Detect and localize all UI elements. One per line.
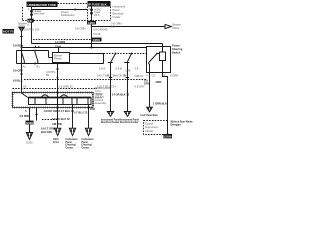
svg-text:B1: B1 — [37, 64, 41, 68]
fuse F8 name blob — [28, 19, 34, 23]
power steering switch box — [147, 47, 171, 73]
svg-text:14 OR BLK 72: 14 OR BLK 72 — [112, 93, 130, 97]
svg-text:F8: F8 — [28, 19, 32, 23]
svg-text:A1: A1 — [23, 64, 27, 68]
HVAC fuse text — [94, 8, 101, 17]
svg-text:Instrument Panel: Instrument Panel — [101, 118, 120, 121]
svg-text:4.7 BLU 72: 4.7 BLU 72 — [74, 110, 88, 114]
dashed connector line C2 — [13, 88, 98, 90]
left bold label 2 lines — [41, 126, 55, 134]
connector blob C2 — [92, 38, 102, 42]
junction dot bus3 a — [21, 63, 23, 65]
svg-text:GRY: GRY — [144, 82, 150, 86]
blower motor text — [173, 23, 181, 30]
svg-text:G301: G301 — [53, 139, 59, 141]
svg-text:0.8: 0.8 — [135, 66, 139, 70]
svg-text:Without Rear Wndw: Without Rear Wndw — [171, 121, 193, 124]
svg-text:IP FUSE BLK: IP FUSE BLK — [88, 2, 107, 6]
svg-text:0.8 GRY: 0.8 GRY — [13, 69, 23, 73]
svg-text:S339: S339 — [26, 121, 33, 125]
svg-text:C48: C48 — [90, 107, 95, 111]
svg-text:AM PNK: AM PNK — [52, 122, 62, 126]
bus wire lower (DK GRN) — [22, 47, 147, 49]
svg-text:Electrical: Electrical — [113, 12, 124, 16]
coil component — [160, 52, 166, 61]
svg-text:B: B — [164, 73, 166, 77]
mid arrow 2 label — [120, 118, 139, 124]
svg-text:Steering: Steering — [172, 47, 183, 51]
svg-text:C200: C200 — [88, 21, 96, 25]
dashed note box bottom right — [144, 121, 168, 135]
left connector triangle from fuse — [19, 22, 27, 32]
wires below control box — [29, 108, 31, 121]
svg-text:Except: Except — [145, 122, 153, 126]
branch wire label — [61, 10, 75, 17]
svg-text:HOT FUSE: HOT FUSE — [3, 30, 18, 34]
fuse block A dashed border — [22, 7, 24, 21]
svg-text:UNDERHOOD FUSE: UNDERHOOD FUSE — [28, 3, 57, 7]
svg-text:Panel: Panel — [113, 8, 120, 12]
arrow to blower motor — [165, 24, 171, 28]
ground triangle mid 2 — [66, 128, 78, 149]
HVAC control assembly box (ticked border) — [12, 92, 95, 109]
wire from resistor box right — [70, 53, 104, 55]
svg-text:Switch: Switch — [172, 50, 181, 54]
splice blob S339 — [26, 121, 34, 125]
junction dot orange wire — [91, 47, 93, 49]
switch in right box — [149, 54, 160, 63]
fuse block A header (UNDERHOOD FUSE BLOCK) — [27, 2, 58, 8]
bottom bus wire — [17, 63, 104, 65]
dashed switch line — [104, 53, 147, 55]
pin tick on resistor wire — [56, 68, 58, 70]
svg-text:Vent fuse: Vent fuse — [34, 12, 46, 16]
fuse block B dashed border left — [87, 7, 89, 21]
dashed tie line between fuse blocks — [58, 3, 88, 5]
relay contact node 1 — [21, 50, 23, 52]
tick on pink wire — [20, 36, 22, 38]
svg-text:C48: C48 — [126, 69, 131, 73]
resistor box stub down — [57, 63, 59, 129]
svg-text:G200: G200 — [26, 141, 33, 145]
switch arc 1 — [41, 95, 49, 98]
svg-text:0.8 PNK: 0.8 PNK — [20, 114, 30, 118]
control assembly label — [95, 92, 107, 106]
junction dot bus2 left — [21, 47, 23, 49]
wire label 0.8 GRY — [144, 79, 150, 86]
svg-text:ORN: ORN — [156, 80, 162, 84]
svg-text:Power: Power — [172, 44, 180, 48]
svg-text:Center: Center — [82, 146, 89, 149]
svg-text:Instrument: Instrument — [66, 138, 78, 141]
svg-text:B: B — [25, 109, 27, 113]
dashed connector line mid — [33, 39, 92, 41]
switch M2 — [131, 53, 133, 55]
right box label — [172, 44, 183, 55]
bus2 pin ticks — [36, 46, 39, 48]
coil stub to bus1 — [162, 44, 164, 53]
svg-text:LG ORN: LG ORN — [55, 40, 65, 44]
hot at all times label blob — [3, 29, 19, 34]
svg-text:Electrical Center: Electrical Center — [120, 121, 138, 124]
mid arrow 1 label — [101, 118, 120, 124]
svg-text:Distribution: Distribution — [61, 13, 75, 17]
step wire — [103, 54, 105, 64]
blower resistors box — [53, 53, 70, 63]
blower switch wiper — [22, 93, 28, 98]
svg-text:0.8 DK GRN: 0.8 DK GRN — [44, 109, 59, 113]
relay box outline left — [17, 51, 53, 64]
wire from fuse block A down — [31, 7, 33, 44]
svg-text:0.8 DK BLU 52: 0.8 DK BLU 52 — [52, 117, 70, 121]
fuse block B dashed border right — [110, 7, 112, 21]
short dashed line — [42, 119, 59, 121]
wire label PPL — [46, 70, 56, 77]
branch wire to IP fuse block — [32, 9, 88, 11]
wire down from resistor — [72, 105, 74, 129]
svg-text:Resist: Resist — [54, 57, 62, 61]
mid connector arrow 2 — [124, 112, 130, 117]
svg-text:A: A — [146, 73, 148, 77]
svg-text:0.8 LT GRN: 0.8 LT GRN — [41, 126, 55, 130]
svg-text:Panel: Panel — [82, 142, 89, 144]
splice node on branch — [74, 9, 76, 11]
svg-text:0.6 GRN 52: 0.6 GRN 52 — [59, 84, 74, 88]
svg-text:0.8 DK BLU: 0.8 DK BLU — [114, 74, 128, 78]
svg-text:A GRD: A GRD — [170, 73, 178, 77]
svg-text:0.8 A: 0.8 A — [99, 66, 105, 70]
switch contact 2 — [35, 51, 38, 64]
svg-text:Electrical Center: Electrical Center — [101, 121, 119, 124]
mid connector arrow 1 — [107, 112, 113, 117]
svg-text:A3: A3 — [23, 84, 27, 88]
wire right to blower motor — [92, 26, 166, 28]
resistor box stub to bus2 — [58, 48, 60, 53]
fuse block B header (IP FUSE BLOCK) — [88, 1, 111, 7]
heater fuse text — [34, 9, 46, 16]
svg-text:0.8 GRY: 0.8 GRY — [135, 85, 145, 89]
svg-text:Electrical: Electrical — [82, 144, 93, 147]
svg-text:Assembly: Assembly — [95, 101, 107, 105]
wire below splice — [29, 124, 31, 132]
svg-text:Motor: Motor — [173, 26, 180, 30]
svg-text:0.8 PNK 139: 0.8 PNK 139 — [24, 28, 40, 32]
svg-text:Instrument Panel: Instrument Panel — [120, 118, 139, 121]
dashed separator line mid page — [24, 79, 147, 81]
splice dot on PPL wire — [57, 77, 59, 79]
switch contact 1 — [22, 51, 25, 64]
svg-text:1 ORN BLK: 1 ORN BLK — [153, 102, 167, 106]
svg-text:Cluster: Cluster — [145, 129, 154, 133]
note box side label — [171, 121, 193, 127]
svg-text:Instr Panel Elec: Instr Panel Elec — [141, 114, 159, 117]
pink wire down — [21, 32, 23, 94]
svg-text:C6: C6 — [152, 73, 156, 77]
switch stub down — [148, 63, 151, 108]
wire pin ticks mid — [109, 77, 129, 79]
svg-text:BLK DRL: BLK DRL — [41, 130, 53, 134]
ground G200 left — [26, 133, 33, 145]
svg-text:Panel: Panel — [66, 142, 73, 144]
svg-text:Instrument: Instrument — [113, 4, 126, 8]
instrument panel electrical center label — [113, 4, 126, 19]
ground blob right — [164, 134, 173, 139]
connector C200 blob — [87, 21, 96, 25]
svg-text:GRN D: GRN D — [135, 74, 144, 78]
svg-text:Center: Center — [66, 146, 73, 149]
fuse F8 symbol — [31, 10, 33, 12]
junction dot bus3 c — [57, 63, 59, 65]
junction dot bus3 b — [34, 63, 36, 65]
svg-text:0.8 ORN: 0.8 ORN — [75, 27, 86, 31]
switch arc 2 — [60, 95, 68, 98]
svg-text:C200: C200 — [93, 38, 101, 42]
svg-text:Instrument: Instrument — [82, 138, 94, 141]
fuse HTR symbol — [91, 9, 93, 11]
svg-text:0.8 ORN 40: 0.8 ORN 40 — [93, 28, 108, 32]
ground triangle mid 3 — [82, 128, 94, 149]
svg-text:25 A: 25 A — [94, 13, 100, 17]
svg-text:5 C48: 5 C48 — [93, 32, 101, 36]
right connector arrow down — [147, 107, 153, 112]
svg-text:Grnd: Grnd — [53, 142, 59, 144]
relay contact node 2 — [34, 50, 36, 52]
wire down mid 1 — [110, 63, 112, 112]
coil stub down — [163, 61, 168, 135]
svg-text:0.8 B: 0.8 B — [116, 66, 122, 70]
fuse block bottom dashed border — [23, 20, 111, 22]
svg-text:140: 140 — [111, 25, 116, 29]
IP fuse block B fuse wire — [91, 7, 93, 22]
junction dot at wire right — [91, 26, 93, 28]
svg-text:0.8 BLK: 0.8 BLK — [13, 78, 23, 82]
svg-text:Defogger: Defogger — [171, 124, 181, 126]
multifunction text — [95, 86, 111, 100]
wire down mid 2 — [127, 63, 129, 112]
pin tick pink wire lower — [20, 73, 22, 75]
svg-text:1 LT BLU 44: 1 LT BLU 44 — [59, 109, 74, 113]
orange wire down from C200 — [91, 24, 93, 47]
ground triangle mid 1 — [53, 128, 61, 144]
svg-text:Instrument: Instrument — [145, 125, 158, 129]
pin tick x36 wire — [35, 113, 37, 115]
svg-text:89: 89 — [46, 73, 49, 77]
label 0.8 ORN 140 — [111, 22, 122, 29]
bus wire upper (LT GRN) — [32, 43, 163, 45]
svg-text:Center: Center — [113, 15, 121, 19]
svg-text:Electrical: Electrical — [66, 144, 77, 147]
resistor bar ticks — [35, 98, 88, 105]
switch M1 — [115, 53, 117, 55]
resistor bar — [29, 98, 92, 105]
